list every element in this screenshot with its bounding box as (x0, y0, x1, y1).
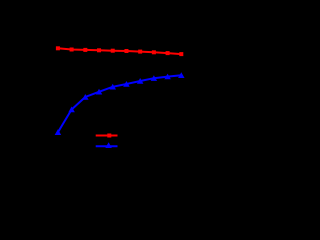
red curve line (58, 48, 181, 54)
legend red sample line (96, 135, 118, 137)
legend blue sample marker (105, 142, 112, 148)
blue curve line (58, 75, 181, 132)
legend blue sample line (96, 145, 118, 147)
blue curve triangle markers (55, 72, 185, 135)
red curve square markers (56, 46, 183, 56)
legend red sample marker (107, 134, 111, 138)
